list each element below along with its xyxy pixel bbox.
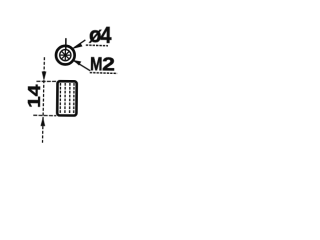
- hidden thread line 1: [59, 83, 61, 114]
- bottom dimension arrowhead (points up): [41, 117, 46, 126]
- leader arrowhead at circle (o4): [73, 43, 83, 49]
- svg-text:M: M: [90, 54, 103, 75]
- dimension text o4: [25, 21, 115, 109]
- hidden thread line 3: [69, 83, 71, 114]
- leader line to M2 label: [74, 61, 91, 71]
- leader shelf under M2 text: [90, 72, 118, 75]
- dimension line of 14 (vertical, arrows outside): [42, 57, 44, 143]
- side view body rectangle: [57, 81, 77, 115]
- bottom extension line of 14 dimension: [33, 114, 56, 117]
- svg-text:14: 14: [25, 84, 44, 108]
- top dimension arrowhead (points down): [42, 72, 47, 81]
- thread star spokes inside inner circle: [60, 50, 70, 60]
- leader shelf under o4 text: [86, 44, 108, 47]
- spacer end view outer circle (o4): [56, 46, 75, 65]
- vertical centerline tick above circle: [65, 38, 67, 50]
- hidden thread line 4: [73, 83, 75, 114]
- hidden thread line 2: [64, 83, 66, 114]
- top extension line of 14 dimension: [36, 80, 56, 82]
- leader line to o4 label: [73, 40, 85, 48]
- leader arrowhead at circle (M2): [73, 60, 81, 65]
- svg-text:2: 2: [102, 55, 115, 75]
- svg-text:4: 4: [100, 22, 112, 49]
- spacer end view inner thread circle (M2): [60, 49, 71, 60]
